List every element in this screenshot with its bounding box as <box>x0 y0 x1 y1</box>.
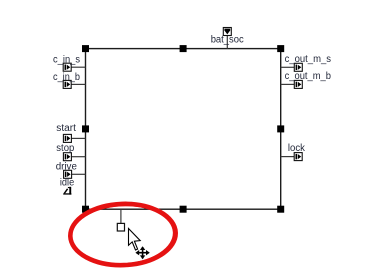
svg-text:c_out_m_s: c_out_m_s <box>285 54 331 65</box>
inport c_in_s <box>53 55 80 72</box>
wire start to block <box>71 137 85 139</box>
selection handle top-middle <box>180 45 187 52</box>
wire block to c_out_m_b <box>281 83 295 85</box>
outport lock <box>288 143 306 161</box>
selection handle bottom-middle <box>180 206 187 213</box>
svg-text:idle: idle <box>60 177 75 188</box>
selection handle bottom-right <box>277 206 284 213</box>
selection handle middle-left <box>82 125 89 132</box>
wire block to c_out_m_s <box>281 66 295 68</box>
wire c_in_b to block <box>71 83 85 85</box>
inport start <box>56 123 76 143</box>
selection handle top-right <box>277 45 284 52</box>
selection handle middle-right <box>277 125 284 132</box>
svg-text:bat_soc: bat_soc <box>211 35 244 46</box>
outport c_out_m_b <box>285 71 332 88</box>
wire stop to block <box>71 156 85 158</box>
subsystem block outline <box>86 49 281 210</box>
selection handle bottom-left <box>82 206 89 213</box>
outport c_out_m_s <box>285 54 331 71</box>
svg-text:c_in_b: c_in_b <box>53 72 80 83</box>
wire block to lock <box>281 156 295 158</box>
svg-text:c_out_m_b: c_out_m_b <box>285 71 332 82</box>
red highlight ellipse annotation <box>69 202 176 267</box>
inport drive <box>56 161 78 178</box>
svg-text:c_in_s: c_in_s <box>53 55 80 66</box>
selection handle top-left <box>82 45 89 52</box>
wire bat_soc to block top <box>226 36 228 49</box>
svg-text:drive: drive <box>56 161 78 172</box>
svg-text:lock: lock <box>288 143 306 154</box>
wire drive to block <box>72 173 86 175</box>
dragged port placeholder square <box>117 223 124 231</box>
move cursor four-way arrows <box>135 246 149 259</box>
inport bat_soc <box>211 28 244 46</box>
signal glyph idle <box>60 177 75 194</box>
wire c_in_s to block <box>71 66 85 68</box>
svg-text:start: start <box>56 123 76 134</box>
wire stem to dragged port <box>120 209 122 223</box>
mouse arrow cursor <box>129 229 141 251</box>
inport stop <box>56 143 74 161</box>
svg-text:stop: stop <box>56 143 74 154</box>
inport c_in_b <box>53 72 80 89</box>
